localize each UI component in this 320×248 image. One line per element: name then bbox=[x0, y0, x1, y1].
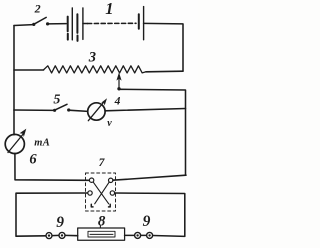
wire: switch 2 to battery bbox=[48, 23, 67, 25]
wire: voltmeter to right vertical bbox=[105, 109, 185, 111]
battery 1 (cell plates) bbox=[67, 17, 69, 32]
svg-text:9: 9 bbox=[56, 214, 64, 231]
commutator terminal mid-right bbox=[110, 191, 114, 195]
commutator terminal mid-left bbox=[88, 191, 92, 195]
svg-text:v: v bbox=[107, 118, 112, 129]
wire: voltmeter row from left vertical bbox=[14, 109, 54, 111]
terminal 9 left pair bbox=[46, 233, 52, 239]
svg-text:5: 5 bbox=[53, 92, 60, 107]
svg-text:8: 8 bbox=[98, 214, 106, 230]
terminal 9 right pair bbox=[135, 232, 141, 238]
commutator bottom contact hooks bbox=[91, 204, 93, 207]
wire: commutator top-right to right vertical bbox=[113, 175, 186, 180]
milliammeter 6 circle bbox=[5, 134, 24, 153]
svg-text:6: 6 bbox=[29, 152, 37, 168]
wire: battery to top-right corner, down right side bbox=[144, 23, 183, 71]
sample 8 inner slot bbox=[88, 231, 115, 237]
wire: left vertical, switch row to meter bbox=[13, 110, 15, 135]
commutator terminal top-left bbox=[89, 178, 93, 182]
battery right cell bbox=[138, 14, 140, 28]
wire: sample box to right terminals bbox=[125, 234, 135, 236]
switch 2 bbox=[32, 23, 35, 26]
voltmeter needle arrow bbox=[88, 101, 104, 120]
wire: meter bottom to corner, then right to commutator bbox=[15, 153, 89, 180]
wire: left vertical top (outer loop) bbox=[13, 26, 15, 111]
wire: rheostat right lead bbox=[146, 70, 183, 73]
sample 8 inner wire bbox=[90, 233, 113, 235]
wire: rheostat row left lead bbox=[14, 69, 44, 71]
svg-text:A: A bbox=[42, 137, 50, 148]
milliammeter needle arrow bbox=[8, 134, 24, 153]
svg-text:2: 2 bbox=[34, 2, 41, 16]
svg-text:4: 4 bbox=[114, 95, 121, 107]
commutator terminal top-right bbox=[109, 178, 113, 182]
wire: wiper line to right vertical bbox=[119, 89, 186, 175]
resistor 3 (rheostat zigzag) bbox=[44, 66, 147, 73]
wire: top row left segment bbox=[14, 24, 33, 27]
svg-text:3: 3 bbox=[88, 50, 96, 66]
sample 8 label tick bbox=[99, 226, 101, 228]
wire: between right terminals bbox=[141, 234, 147, 236]
svg-text:9: 9 bbox=[143, 213, 151, 230]
commutator crossed links bbox=[93, 182, 109, 204]
wire: between left terminals bbox=[52, 234, 59, 236]
rheostat wiper arrow 4-tap bbox=[118, 76, 120, 89]
svg-text:m: m bbox=[34, 137, 42, 148]
wire: battery dashed link (omitted cells) bbox=[83, 23, 88, 25]
svg-text:7: 7 bbox=[99, 157, 106, 169]
svg-text:1: 1 bbox=[105, 0, 113, 18]
wire: right terminals to bottom-right corner, up to commutator mid-right bbox=[115, 193, 185, 236]
wire: left terminals to sample box bbox=[65, 234, 78, 236]
wire: commutator mid-left to left drop bbox=[16, 193, 88, 236]
commutator 7 dashed box bbox=[86, 173, 116, 211]
voltmeter U4 circle bbox=[88, 103, 105, 120]
wire: switch 5 to voltmeter bbox=[69, 110, 88, 111]
sample 8 outer box bbox=[78, 228, 125, 240]
switch 5 bbox=[53, 109, 56, 112]
